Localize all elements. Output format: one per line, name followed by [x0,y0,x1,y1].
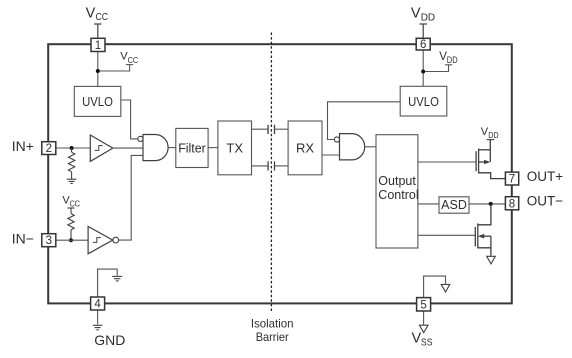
svg-text:3: 3 [46,235,52,247]
ground symbol below pin4 [93,325,103,330]
pin 4 [91,297,105,311]
svg-text:Filter: Filter [178,140,206,155]
wire AND to Output Control [365,146,376,148]
pin 7 [505,172,518,186]
small VCC symbol near pin1 [98,65,133,71]
svg-text:CC: CC [128,55,139,65]
svg-text:2: 2 [46,143,52,155]
svg-text:SS: SS [421,336,433,348]
svg-text:CC: CC [70,199,81,209]
isolation capacitor C1 top [252,125,289,134]
small VDD symbol near pin6 [423,65,452,72]
wire buffer to NAND [113,147,143,149]
ASD box [439,197,469,213]
transistor Q1 (high side) [476,140,505,179]
pin 1 [91,38,105,52]
svg-text:Control: Control [378,188,418,202]
pin 2 [42,142,56,155]
VSS arrow above pin5 [441,284,450,292]
isolation capacitor C2 bottom [252,161,289,170]
svg-text:7: 7 [509,174,515,186]
NAND bubble input [138,136,143,141]
IC outer border [48,44,512,303]
wire OC to PMOS gate [418,161,476,163]
svg-text:UVLO: UVLO [408,94,439,109]
wire OC to NMOS gate [418,234,475,236]
svg-text:DD: DD [488,130,498,140]
RX box [288,121,322,175]
svg-text:TX: TX [226,140,243,155]
svg-text:Barrier: Barrier [256,330,289,344]
svg-text:UVLO: UVLO [82,94,113,109]
node dot at R2 [69,238,73,242]
wire Filter to TX [208,147,218,149]
Output Control box [376,135,418,248]
inverter bubble [113,237,119,243]
svg-text:IN+: IN+ [12,138,34,154]
NAND gate G1 [143,135,168,161]
resistor R1 pulldown [68,148,74,179]
wire pin3 to inverter [56,239,88,241]
node junction dot vdd [421,70,425,74]
VDD supply symbol top [420,24,428,38]
AND bubble input [334,137,339,142]
svg-text:4: 4 [94,299,101,311]
hysteresis glyph U1 [95,146,103,151]
node dot at R1 [70,146,74,150]
Q1 arrow [484,160,490,165]
svg-text:Isolation: Isolation [251,316,294,330]
VCC supply symbol top [94,24,102,38]
schmitt buffer U1 [90,135,113,161]
TX box [218,121,252,175]
svg-text:DD: DD [447,55,458,65]
resistor R2 pullup [68,214,74,241]
UVLO box left [74,86,121,116]
pin 5 [417,298,431,312]
pin 6 [416,38,430,51]
ground below R1 [67,179,77,183]
wire UVLO2 to AND bubble [328,102,401,140]
svg-text:ASD: ASD [441,198,467,212]
svg-text:5: 5 [420,299,426,311]
Filter box [176,128,208,167]
wire OC to ASD [418,203,439,205]
wire NAND to Filter [168,147,176,149]
svg-text:IN−: IN− [12,231,34,247]
transistor Q2 (low side) [475,204,491,256]
pin 8 [505,197,518,211]
isolation barrier dotted line [270,33,272,312]
Q2 arrow [478,234,484,239]
VSS arrow below pin5 [419,325,428,333]
bracket ground above pin4 [98,269,118,297]
node dot OUT- [489,202,493,206]
bracket VSS arrow above pin5 [424,276,446,298]
hysteresis glyph U2 [93,238,101,243]
schmitt inverter U2 [88,226,113,253]
svg-text:V: V [86,5,96,21]
wire ASD to pin8 [469,203,505,205]
svg-text:OUT−: OUT− [527,194,563,209]
wire pin2 to schmitt buffer [56,147,91,149]
svg-text:6: 6 [420,39,426,51]
svg-text:V: V [411,6,421,22]
pin 3 [42,234,56,248]
svg-text:CC: CC [96,12,109,23]
wire pin5 to VSS arrow [423,311,425,325]
small VCC above R2 [67,208,74,214]
ground symbol above pin4 [112,276,122,281]
svg-text:RX: RX [296,140,314,155]
wire UVLO1 to NAND bubble [121,100,138,139]
svg-text:1: 1 [95,40,101,52]
svg-text:8: 8 [509,198,515,210]
wire inverter to NAND bottom input [119,155,143,240]
AND gate G2 [340,134,365,160]
wire pin1 to UVLO1 [97,51,99,86]
svg-text:OUT+: OUT+ [527,169,563,184]
wire pin6 to UVLO2 [422,50,424,86]
node junction dot vcc [96,69,100,73]
svg-text:GND: GND [94,332,125,348]
VSS arrow below Q2 [487,256,496,264]
small VDD above PMOS [487,139,495,141]
wire RX to AND [322,154,340,156]
svg-text:DD: DD [421,12,435,23]
UVLO box right [400,86,447,116]
svg-text:Output: Output [378,174,416,188]
wire pin4 to GND [97,310,99,324]
